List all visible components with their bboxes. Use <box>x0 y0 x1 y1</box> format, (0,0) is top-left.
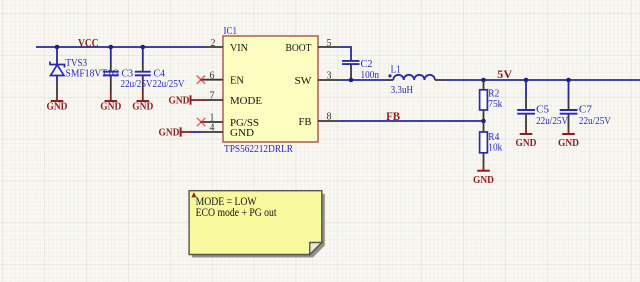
pin 8 FB <box>299 111 341 128</box>
wire SW node <box>340 79 386 81</box>
svg-text:7: 7 <box>210 90 215 101</box>
net label FB <box>386 111 400 123</box>
pin C7 bottom <box>568 114 570 129</box>
resistor R2 <box>480 90 488 110</box>
designator L1 <box>391 64 401 76</box>
svg-text:GND: GND <box>159 127 180 139</box>
svg-text:5: 5 <box>327 38 332 49</box>
value 75k <box>488 98 502 110</box>
wire VCC rail <box>36 46 204 48</box>
capacitor C3 <box>103 72 119 76</box>
capacitor C2 <box>342 61 360 64</box>
node junction C7 <box>566 78 571 83</box>
svg-text:FB: FB <box>299 116 312 128</box>
pin C4 bottom <box>142 76 144 92</box>
svg-text:ECO mode + PG out: ECO mode + PG out <box>196 207 278 219</box>
pin C5 top <box>525 98 527 110</box>
svg-text:C5: C5 <box>536 104 549 116</box>
ground GND (C5) <box>516 129 537 149</box>
ground GND (C7) <box>558 129 579 149</box>
designator C3 <box>122 68 134 80</box>
capacitor C5 <box>517 110 535 114</box>
svg-text:VIN: VIN <box>230 42 248 54</box>
wire FB net <box>340 120 484 122</box>
designator R2 <box>488 88 499 100</box>
node VCC junction at C4 <box>141 45 146 50</box>
pin C4 top <box>142 63 144 71</box>
svg-text:L1: L1 <box>391 64 401 76</box>
pin R2 top <box>483 80 485 90</box>
svg-text:GND: GND <box>558 137 579 149</box>
svg-text:IC1: IC1 <box>224 25 238 37</box>
pin C2 bottom <box>350 65 352 81</box>
svg-text:22u/25V: 22u/25V <box>121 78 153 90</box>
pin 7 MODE <box>203 90 262 107</box>
capacitor C4 <box>135 72 151 76</box>
svg-text:8: 8 <box>327 111 332 122</box>
svg-text:GND: GND <box>132 101 153 113</box>
ground GND (C4) <box>132 92 153 113</box>
value TPS562212DRLR <box>224 143 294 155</box>
svg-text:10k: 10k <box>488 142 502 154</box>
pin 1 PG/SS <box>201 112 259 129</box>
value 22u/25V (C3) <box>121 78 153 90</box>
pin C5 bottom <box>525 114 527 129</box>
pin 2 VIN <box>204 38 249 54</box>
net label 5V <box>497 69 513 81</box>
pin C7 top <box>568 98 570 110</box>
ground GND (C3) <box>100 92 121 113</box>
svg-text:C7: C7 <box>579 104 592 116</box>
pin R4 bottom <box>483 153 485 166</box>
svg-text:GND: GND <box>47 101 68 113</box>
pin C3 top <box>110 63 112 71</box>
wire C3 to rail <box>110 47 112 63</box>
pin of TVS3 to ground <box>56 83 58 95</box>
svg-text:6: 6 <box>210 71 215 82</box>
node SW junction <box>349 78 354 83</box>
wire BOOT to C2 <box>340 47 351 61</box>
svg-text:BOOT: BOOT <box>286 42 312 54</box>
pin C3 bottom <box>110 76 112 92</box>
wire C7 to rail <box>568 80 570 98</box>
svg-text:75k: 75k <box>488 98 502 110</box>
svg-text:SW: SW <box>295 75 313 87</box>
value 3.3uH <box>391 84 414 96</box>
svg-text:GND: GND <box>169 95 190 107</box>
note box MODE = LOW <box>189 191 325 258</box>
svg-text:MODE = LOW: MODE = LOW <box>196 196 257 208</box>
pin 3 SW <box>295 71 341 87</box>
pin R2 bottom <box>483 110 485 121</box>
capacitor C7 <box>560 110 578 114</box>
svg-text:4: 4 <box>210 122 215 133</box>
op-amp U1 body: IC1 TPS562212DRLR <box>223 36 318 142</box>
node junction C5 <box>524 78 529 83</box>
svg-text:22u/25V: 22u/25V <box>153 78 185 90</box>
value 22u/25V (C5) <box>536 115 568 127</box>
svg-text:5V: 5V <box>497 69 513 81</box>
value 100n <box>361 69 380 81</box>
svg-text:GND: GND <box>473 174 494 186</box>
inductor L1 <box>386 74 446 80</box>
svg-text:3: 3 <box>327 71 332 82</box>
svg-text:2: 2 <box>211 38 216 49</box>
svg-text:FB: FB <box>386 111 400 123</box>
ground GND (R4) <box>473 166 494 187</box>
designator C5 <box>536 104 549 116</box>
designator R4 <box>488 131 499 143</box>
wire pin4 to ground <box>191 131 203 133</box>
pin R4 top <box>483 121 485 132</box>
designator C4 <box>154 68 166 80</box>
node VCC junction at TVS3 <box>55 45 60 50</box>
node junction R2 <box>481 78 486 83</box>
wire C4 to rail <box>142 47 144 63</box>
designator C7 <box>579 104 592 116</box>
ground GND (MODE pin) <box>169 95 204 107</box>
resistor R4 <box>480 132 488 153</box>
pin 4 GND <box>202 122 254 139</box>
pin 5 BOOT <box>286 38 341 54</box>
wire TVS3 to rail <box>56 47 58 65</box>
designator IC1 <box>224 25 238 37</box>
value 10k <box>488 142 502 154</box>
designator TVS3 <box>66 57 88 69</box>
wire C5 to rail <box>525 80 527 98</box>
svg-text:TPS562212DRLR: TPS562212DRLR <box>224 143 294 155</box>
svg-text:EN: EN <box>230 75 244 87</box>
svg-text:GND: GND <box>516 137 537 149</box>
node VCC junction at C3 <box>109 45 114 50</box>
value 22u/25V (C4) <box>153 78 185 90</box>
svg-text:VCC: VCC <box>78 37 99 49</box>
no-ERC cross on pin 1 <box>197 118 205 126</box>
svg-text:MODE: MODE <box>230 95 262 107</box>
svg-text:3.3uH: 3.3uH <box>391 84 414 96</box>
value SMF18VT1G <box>66 68 120 80</box>
svg-text:22u/25V: 22u/25V <box>579 115 611 127</box>
designator C2 <box>361 58 373 70</box>
diode TVS3 (zener symbol) <box>50 62 65 84</box>
node FB junction <box>481 119 486 124</box>
net label VCC <box>78 37 99 49</box>
ground GND (pin 4) <box>159 127 192 139</box>
value 22u/25V (C7) <box>579 115 611 127</box>
svg-text:GND: GND <box>230 127 254 139</box>
svg-text:22u/25V: 22u/25V <box>536 115 568 127</box>
wire 5V rail <box>446 79 640 81</box>
svg-text:GND: GND <box>100 101 121 113</box>
ground GND (TVS3) <box>47 95 68 113</box>
pin 6 EN <box>201 71 244 87</box>
no-ERC cross on pin 6 <box>197 76 205 84</box>
